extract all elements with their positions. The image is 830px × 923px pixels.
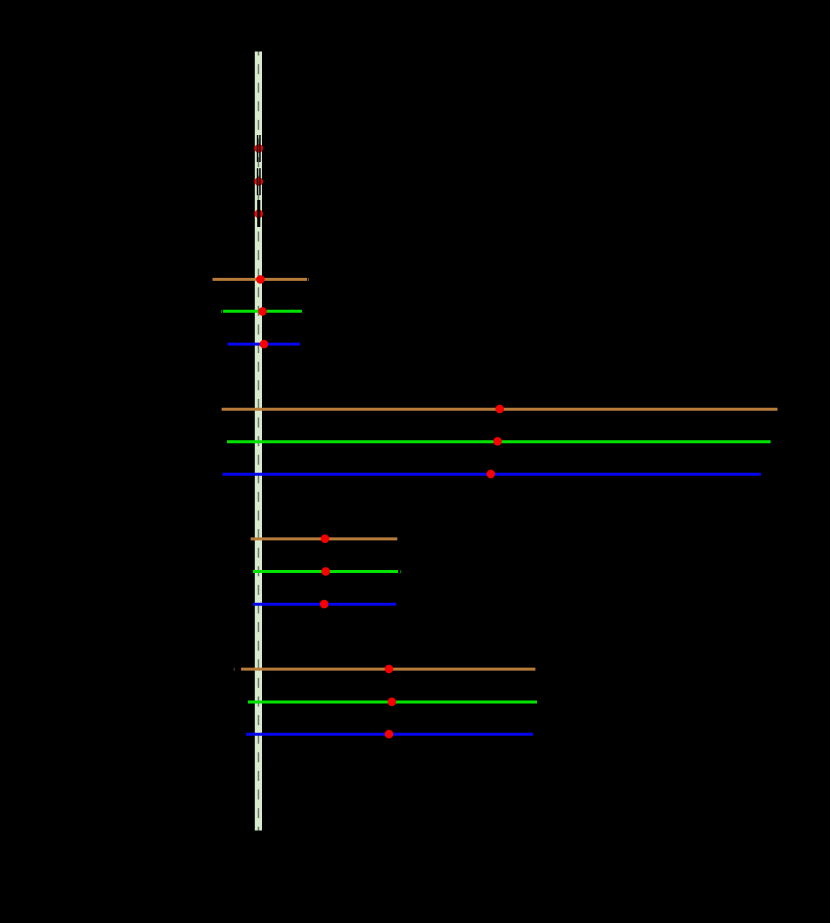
row 7 point	[495, 405, 504, 414]
row 15 CI line (blue)	[246, 733, 533, 736]
row 6 CI line (blue)	[228, 343, 301, 346]
row 1 point	[254, 144, 263, 153]
row 1 CI caps (black, narrow CI)	[257, 135, 259, 162]
row 8 CI line (green)	[227, 440, 771, 443]
row 12 CI line (blue)	[253, 603, 396, 606]
row 14 point	[388, 698, 397, 707]
row 2 CI caps (black, narrow CI)	[257, 168, 259, 195]
row 4 CI line (brown)	[213, 278, 308, 281]
row 13 left cap	[234, 668, 235, 671]
row 10 CI line (brown)	[251, 537, 398, 540]
row 15 point	[385, 730, 394, 739]
row 6 point	[260, 340, 269, 349]
row 9 CI line (blue)	[222, 473, 761, 476]
row 11 CI line (green)	[253, 570, 398, 573]
row 9 point	[487, 470, 496, 479]
row 4 point	[256, 275, 265, 284]
row 11 point	[321, 567, 330, 576]
row 4 right cap	[308, 278, 309, 281]
row 8 point	[493, 437, 502, 446]
row 11 right cap	[400, 570, 401, 573]
row 3 CI caps (black, merged)	[257, 200, 260, 227]
row 12 point	[320, 600, 329, 609]
row 14 CI line (green)	[248, 701, 537, 704]
row 5 left cap	[221, 310, 222, 313]
row 3 point	[254, 210, 263, 219]
row 2 point	[254, 177, 263, 186]
row 7 CI line (brown)	[222, 408, 778, 411]
dashed reference line	[257, 52, 259, 831]
row 10 point	[321, 534, 330, 543]
row 13 CI line (brown)	[241, 668, 535, 671]
row 5 CI line (green)	[223, 310, 302, 313]
row 13 point	[385, 665, 394, 674]
reference band	[255, 52, 262, 831]
row 5 point	[258, 307, 267, 316]
